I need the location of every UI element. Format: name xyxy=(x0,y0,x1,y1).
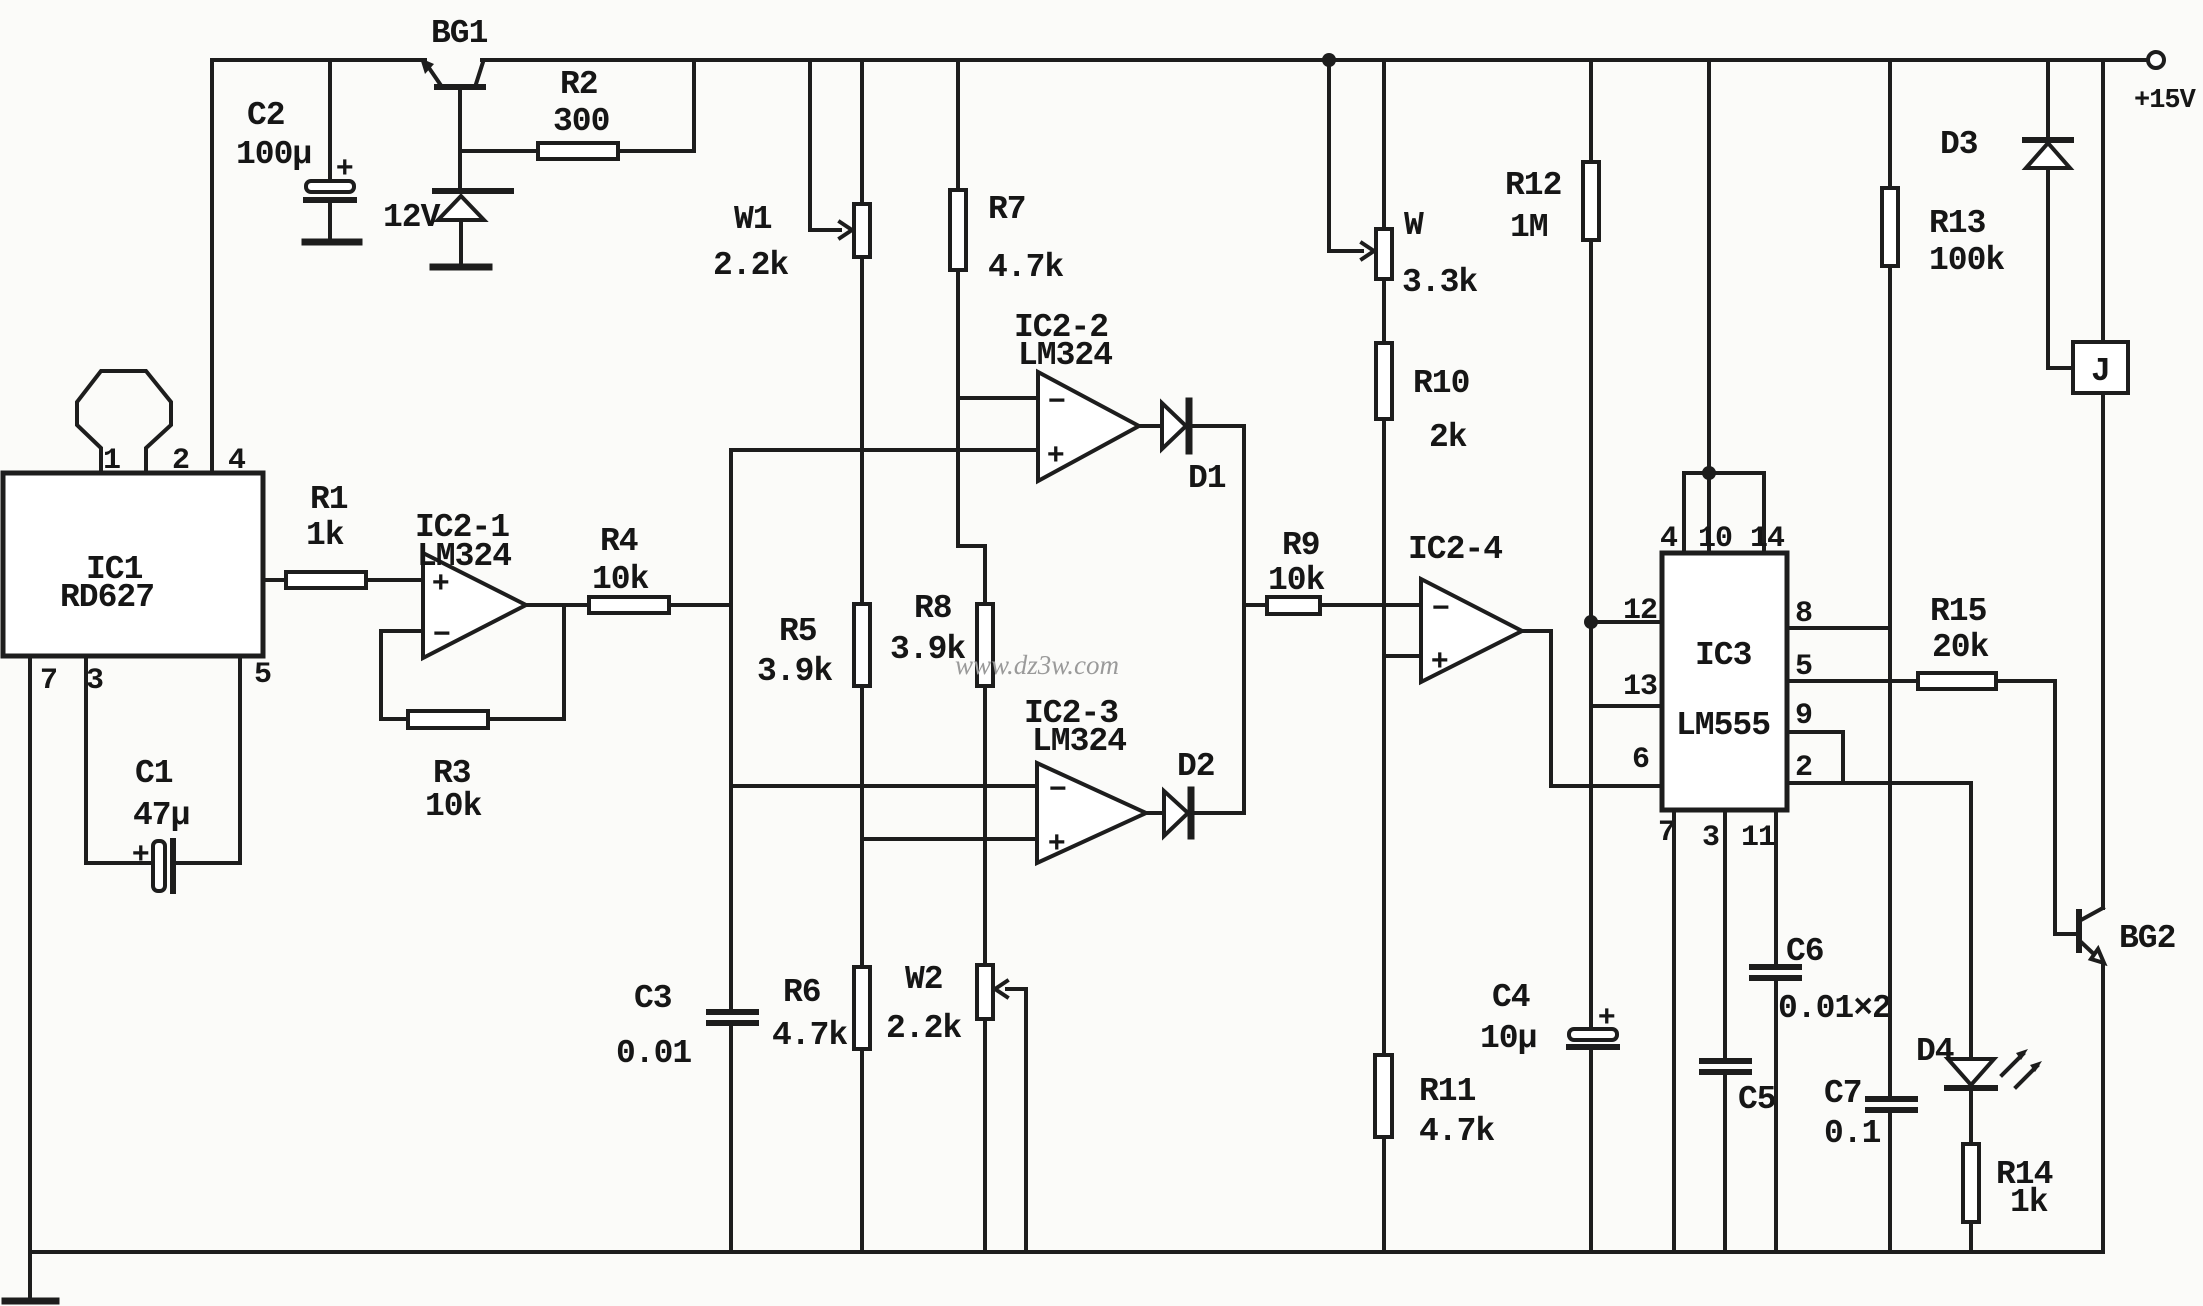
svg-text:D2: D2 xyxy=(1177,748,1215,785)
wire R4 to node A xyxy=(669,603,731,607)
wire junction to R9 xyxy=(1244,603,1267,607)
wire W1 top terminal xyxy=(860,60,864,204)
capacitor C2 xyxy=(306,151,354,239)
svg-text:10k: 10k xyxy=(592,561,649,598)
wire IC1 pin 3 to C1 xyxy=(86,656,153,863)
svg-text:4.7k: 4.7k xyxy=(1419,1113,1494,1150)
svg-text:R15: R15 xyxy=(1930,593,1987,630)
wire bottom ground rail xyxy=(30,1250,2103,1254)
wire R2 to rail xyxy=(618,60,694,151)
ground C2 xyxy=(305,239,359,246)
resistor R7 xyxy=(950,190,966,270)
op-amp IC2-3 xyxy=(1037,763,1146,863)
svg-text:3: 3 xyxy=(1702,821,1719,855)
capacitor C1 xyxy=(132,837,173,891)
capacitor C5 xyxy=(1702,1061,1749,1072)
svg-text:www.dz3w.com: www.dz3w.com xyxy=(955,650,1119,680)
svg-text:−: − xyxy=(1049,772,1066,805)
node dot top bar xyxy=(1702,466,1716,480)
transistor BG2 xyxy=(2055,908,2104,963)
svg-text:10: 10 xyxy=(1698,522,1732,556)
svg-text:D1: D1 xyxy=(1188,460,1226,497)
wire R9 to IC2-4 inverting xyxy=(1320,603,1421,607)
svg-text:R3: R3 xyxy=(433,755,471,792)
svg-text:2: 2 xyxy=(1795,751,1812,785)
svg-text:0.01×2: 0.01×2 xyxy=(1778,990,1891,1027)
antenna IC1 xyxy=(77,371,171,473)
potentiometer W2 arrow xyxy=(995,981,1007,997)
node dot R12 pin12 xyxy=(1584,615,1598,629)
svg-text:+: + xyxy=(1048,826,1065,859)
svg-text:R12: R12 xyxy=(1505,167,1561,204)
wire IC3 pin 8 xyxy=(1787,626,1890,630)
svg-text:9: 9 xyxy=(1795,699,1812,733)
svg-text:1M: 1M xyxy=(1510,209,1548,246)
svg-text:R8: R8 xyxy=(914,590,952,627)
wire J coil from rail xyxy=(2101,60,2105,342)
svg-text:C2: C2 xyxy=(247,97,285,134)
potentiometer W arrow xyxy=(1362,243,1374,259)
wire top +15V rail left segment xyxy=(212,58,425,62)
wire C4 to ground rail xyxy=(1589,1050,1593,1252)
relay J xyxy=(2073,342,2128,393)
svg-text:D4: D4 xyxy=(1916,1033,1954,1070)
wire IC1 out to R1 xyxy=(263,578,286,582)
svg-text:5: 5 xyxy=(1795,650,1812,684)
svg-text:D3: D3 xyxy=(1940,126,1978,163)
wire R6 to ground rail xyxy=(860,1049,864,1252)
wire R8 to W2 xyxy=(983,686,987,965)
svg-text:11: 11 xyxy=(1741,821,1775,855)
svg-text:14: 14 xyxy=(1750,522,1785,556)
potentiometer W body xyxy=(1376,229,1392,279)
svg-text:C3: C3 xyxy=(634,980,672,1017)
op-amp IC2-2 xyxy=(1038,372,1139,481)
wire IC3 pin 2 to D4 branch xyxy=(1787,783,1971,1059)
wire IC3 pin 12 xyxy=(1591,620,1662,624)
svg-text:2.2k: 2.2k xyxy=(886,1010,961,1047)
wire C6 to ground rail xyxy=(1774,981,1778,1252)
svg-text:12: 12 xyxy=(1623,594,1657,628)
capacitor C6 xyxy=(1752,967,1799,978)
svg-text:300: 300 xyxy=(553,103,609,140)
svg-text:3.9k: 3.9k xyxy=(757,653,832,690)
svg-text:6: 6 xyxy=(1632,743,1649,777)
svg-text:W: W xyxy=(1404,207,1424,244)
wire R5 to R6 xyxy=(860,686,864,967)
wire C3 to ground rail xyxy=(729,1026,733,1252)
wire IC3 +15 feed xyxy=(1707,60,1711,553)
svg-text:4.7k: 4.7k xyxy=(772,1017,847,1054)
svg-text:R9: R9 xyxy=(1282,527,1320,564)
diode D3 xyxy=(2025,60,2073,368)
svg-text:10k: 10k xyxy=(425,788,482,825)
svg-text:R1: R1 xyxy=(310,481,348,518)
svg-text:3.3k: 3.3k xyxy=(1402,264,1477,301)
svg-text:C7: C7 xyxy=(1824,1075,1862,1112)
wire IC3 pin 9 staple xyxy=(1787,732,1843,783)
svg-text:IC2-4: IC2-4 xyxy=(1408,531,1502,568)
wire W to R10 xyxy=(1382,279,1386,343)
wire W2 bottom to ground rail xyxy=(983,1019,987,1252)
wire R7 from rail xyxy=(956,60,960,190)
potentiometer W wiper wire xyxy=(1329,60,1362,251)
svg-text:12V: 12V xyxy=(383,199,441,236)
svg-text:0.01: 0.01 xyxy=(616,1035,691,1072)
resistor R5 xyxy=(854,604,870,686)
svg-text:R13: R13 xyxy=(1929,205,1986,242)
svg-text:LM324: LM324 xyxy=(1018,337,1112,374)
wire to IC2-3 plus input xyxy=(862,837,1037,841)
resistor R4 xyxy=(589,597,669,613)
diode D2 xyxy=(1146,790,1244,836)
svg-text:5: 5 xyxy=(254,658,271,692)
wire R7R8 node to IC2-2 inverting xyxy=(958,396,1038,400)
svg-text:8: 8 xyxy=(1795,597,1812,631)
svg-text:1k: 1k xyxy=(306,517,344,554)
svg-text:2k: 2k xyxy=(1429,419,1467,456)
svg-text:J: J xyxy=(2091,353,2110,390)
wire to IC2-4 plus input xyxy=(1384,654,1421,658)
wire R12 down to C4 xyxy=(1589,240,1593,1029)
wire IC3 pin 11 to C6 xyxy=(1774,810,1778,964)
potentiometer W1 arrow xyxy=(840,222,852,238)
resistor R9 xyxy=(1267,597,1320,614)
resistor R12 xyxy=(1583,162,1599,240)
svg-text:10μ: 10μ xyxy=(1480,1020,1536,1057)
wire R7 to R8 with jog xyxy=(958,270,985,604)
svg-text:1: 1 xyxy=(103,444,120,478)
wire IC2-4 output to IC3 pin 6 xyxy=(1522,631,1662,786)
svg-text:LM324: LM324 xyxy=(417,538,511,575)
svg-text:C5: C5 xyxy=(1738,1081,1776,1118)
wire R12 from rail xyxy=(1589,60,1593,162)
resistor R3 xyxy=(408,711,488,728)
IC module IC1 RD627 xyxy=(3,473,263,656)
svg-text:4.7k: 4.7k xyxy=(988,249,1063,286)
wire C5 to ground rail xyxy=(1723,1075,1727,1252)
wire R1 to IC2-1 xyxy=(366,578,423,582)
svg-text:−: − xyxy=(433,617,450,650)
ground zener xyxy=(433,264,489,271)
svg-text:20k: 20k xyxy=(1932,629,1989,666)
wire C1 to IC1 pin 5 xyxy=(177,656,240,863)
svg-text:100μ: 100μ xyxy=(236,136,311,173)
wire top +15V rail right segment xyxy=(482,58,2147,62)
capacitor C4 xyxy=(1569,1000,1617,1047)
resistor R15 xyxy=(1918,673,1996,689)
resistor R8 xyxy=(977,604,993,686)
svg-text:R10: R10 xyxy=(1413,365,1469,402)
svg-text:W1: W1 xyxy=(734,201,772,238)
svg-text:+15V: +15V xyxy=(2134,86,2197,116)
resistor R1 xyxy=(286,572,366,588)
wire node A to IC2-2 noninverting xyxy=(731,448,1038,452)
svg-text:100k: 100k xyxy=(1929,242,2004,279)
resistor R14 xyxy=(1963,1144,1979,1222)
wire R14 to ground rail xyxy=(1969,1222,1973,1252)
svg-text:+: + xyxy=(1047,438,1064,471)
svg-text:LM324: LM324 xyxy=(1032,723,1126,760)
wire R13 down to C7 xyxy=(1888,266,1892,1096)
potentiometer W1 body xyxy=(854,204,870,257)
node dot W wiper on rail xyxy=(1322,53,1336,67)
svg-text:−: − xyxy=(1432,591,1449,624)
svg-text:3: 3 xyxy=(86,664,103,698)
wire BG2 emitter to ground rail xyxy=(2101,963,2105,1252)
capacitor C7 xyxy=(1868,1099,1915,1110)
svg-text:2.2k: 2.2k xyxy=(713,247,788,284)
node +15V terminal xyxy=(2148,52,2164,68)
wire R10 down through IC2-4 plus to R11 xyxy=(1382,419,1386,1055)
resistor R11 xyxy=(1375,1055,1392,1137)
svg-text:7: 7 xyxy=(40,664,57,698)
svg-text:+: + xyxy=(1431,644,1448,677)
wire IC2-1 output to R4 xyxy=(526,603,589,607)
svg-text:47μ: 47μ xyxy=(133,797,189,834)
op-amp IC2-4 xyxy=(1421,579,1522,682)
svg-text:1k: 1k xyxy=(2010,1184,2048,1221)
potentiometer W1 wiper wire xyxy=(810,60,840,230)
wire vertical node A column x731 xyxy=(729,450,733,1009)
wire IC3 pin 5 to R15 xyxy=(1787,679,1918,683)
wire W top terminal xyxy=(1382,60,1386,229)
potentiometer W2 body xyxy=(977,965,993,1019)
svg-text:BG1: BG1 xyxy=(431,15,488,52)
diode zener 12V xyxy=(435,191,511,264)
wire D1 D2 junction column xyxy=(1242,426,1246,813)
diode D1 xyxy=(1139,401,1244,451)
resistor R6 xyxy=(854,967,870,1049)
svg-text:R11: R11 xyxy=(1419,1073,1476,1110)
svg-text:R7: R7 xyxy=(988,191,1026,228)
wire R3 to output xyxy=(488,605,564,719)
IC3 LM555 box xyxy=(1662,553,1787,810)
svg-text:+: + xyxy=(336,151,353,184)
svg-text:10k: 10k xyxy=(1268,562,1325,599)
svg-text:C1: C1 xyxy=(135,755,173,792)
resistor R10 xyxy=(1376,343,1392,419)
resistor R2 xyxy=(538,143,618,159)
svg-text:RD627: RD627 xyxy=(60,579,154,616)
wire left 12V rail down to IC1 pin 4 xyxy=(210,60,214,473)
LED D4 xyxy=(1947,1049,2042,1144)
svg-text:R6: R6 xyxy=(783,974,821,1011)
wire J to BG2 collector xyxy=(2101,393,2105,908)
resistor R13 xyxy=(1882,188,1898,266)
svg-text:C4: C4 xyxy=(1492,979,1530,1016)
svg-text:+: + xyxy=(132,837,149,870)
svg-text:4: 4 xyxy=(228,444,246,478)
svg-text:−: − xyxy=(1048,384,1065,417)
wire W2 wiper down xyxy=(1007,989,1026,1252)
svg-text:IC3: IC3 xyxy=(1695,637,1752,674)
svg-text:2: 2 xyxy=(172,444,189,478)
wire W1 to R5 xyxy=(860,257,864,604)
wire base to R2 xyxy=(460,149,538,153)
wire IC3 pin 13 xyxy=(1591,704,1662,708)
wire C7 to ground rail xyxy=(1888,1113,1892,1252)
wire IC3 pin 7 down xyxy=(1672,810,1676,1252)
svg-text:R5: R5 xyxy=(779,613,817,650)
svg-text:LM555: LM555 xyxy=(1676,707,1770,744)
svg-text:R4: R4 xyxy=(600,523,638,560)
svg-text:W2: W2 xyxy=(905,961,943,998)
wire R15 to BG2 base xyxy=(1996,681,2077,934)
wire IC3 pin 3 to C5 xyxy=(1723,810,1727,1058)
wire R13 from rail xyxy=(1888,60,1892,188)
wire R11 to ground rail xyxy=(1382,1137,1386,1252)
ground main left xyxy=(5,1252,56,1301)
transistor BG1 xyxy=(420,58,483,188)
svg-text:R2: R2 xyxy=(560,66,598,103)
svg-text:+: + xyxy=(1598,1000,1615,1033)
svg-text:4: 4 xyxy=(1660,522,1678,556)
svg-text:BG2: BG2 xyxy=(2119,920,2175,957)
capacitor C3 xyxy=(709,1012,756,1023)
wire IC1 pin 7 down xyxy=(28,656,32,1252)
svg-text:C6: C6 xyxy=(1786,933,1824,970)
svg-text:13: 13 xyxy=(1623,670,1657,704)
wire IC2-1 inverting input to feedback xyxy=(381,631,423,719)
wire node A to IC2-3 inverting xyxy=(731,784,1037,788)
op-amp IC2-1 xyxy=(423,553,526,658)
wire C2 branch xyxy=(328,60,332,181)
wire IC3 top bar pins 4 14 xyxy=(1684,473,1764,553)
svg-text:0.1: 0.1 xyxy=(1824,1115,1881,1152)
